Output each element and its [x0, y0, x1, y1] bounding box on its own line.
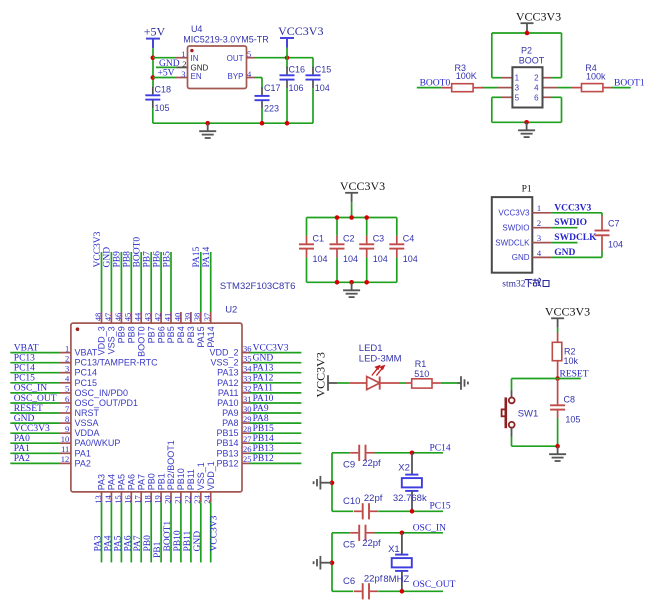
- svg-text:PA12: PA12: [253, 374, 274, 384]
- svg-text:VDD_1: VDD_1: [206, 461, 216, 490]
- svg-text:VSS_2: VSS_2: [210, 358, 238, 368]
- U2 pin35 stub: [242, 362, 250, 364]
- svg-text:5: 5: [65, 384, 69, 394]
- wire U2 pin33 net: [250, 382, 301, 384]
- svg-text:PC15: PC15: [14, 374, 35, 384]
- svg-text:OSC_OUT: OSC_OUT: [14, 394, 57, 404]
- svg-text:OSC_IN: OSC_IN: [14, 384, 47, 394]
- svg-text:C4: C4: [403, 234, 415, 244]
- svg-text:C3: C3: [373, 234, 385, 244]
- wire right rail upper: [561, 33, 563, 78]
- ground led: [458, 376, 468, 390]
- wire C6 left: [332, 590, 353, 592]
- svg-text:104: 104: [315, 83, 330, 93]
- wire caps top: [307, 217, 397, 219]
- svg-text:LED-3MM: LED-3MM: [359, 353, 402, 364]
- wire BOOT0: [417, 87, 442, 89]
- wire ground rail: [153, 122, 313, 124]
- wire U2 pin13 net: [101, 502, 103, 562]
- U2 pin1 stub: [60, 352, 71, 354]
- svg-text:6: 6: [65, 394, 69, 404]
- junction X2 top: [410, 451, 415, 456]
- svg-text:VBAT: VBAT: [75, 348, 98, 358]
- IC U2 STM32F103C8T6 body: [71, 323, 242, 492]
- wire U2 pin22 net: [190, 502, 192, 562]
- wire C16 bottom: [286, 88, 288, 123]
- svg-text:1: 1: [537, 203, 541, 213]
- svg-text:VCC3V3: VCC3V3: [314, 352, 328, 397]
- svg-text:3: 3: [537, 233, 541, 243]
- svg-text:100k: 100k: [586, 72, 606, 82]
- svg-text:16: 16: [123, 495, 133, 504]
- svg-text:PA3: PA3: [97, 474, 107, 490]
- svg-text:MIC5219-3.0YM5-TR: MIC5219-3.0YM5-TR: [183, 34, 269, 44]
- svg-text:PA4: PA4: [107, 474, 117, 490]
- svg-text:17: 17: [133, 495, 143, 504]
- svg-text:PB15: PB15: [216, 428, 238, 438]
- svg-text:1: 1: [181, 49, 185, 59]
- P2 pin5 stub: [501, 96, 512, 98]
- U2 pin40 stub: [180, 312, 182, 323]
- wire U2 pin23 net: [200, 502, 202, 562]
- U2 pin24 stub: [210, 492, 212, 502]
- svg-text:PB7: PB7: [143, 251, 153, 268]
- svg-text:BOOT: BOOT: [519, 55, 545, 65]
- wire C9 left: [332, 452, 350, 454]
- svg-text:104: 104: [373, 254, 388, 264]
- U4 pin2 stub: [177, 66, 188, 68]
- wire U2 pin18 net: [150, 502, 152, 562]
- svg-text:PB10: PB10: [173, 530, 183, 551]
- svg-text:OSC_IN: OSC_IN: [413, 523, 446, 533]
- ground caps: [343, 282, 360, 297]
- svg-text:PC15: PC15: [430, 502, 451, 512]
- junction RESET: [555, 376, 560, 381]
- ground boot: [518, 122, 535, 137]
- svg-text:42: 42: [153, 313, 163, 322]
- power VCC3V3: [278, 24, 323, 48]
- wire U2 pin1 net: [10, 352, 60, 354]
- U2 pin7 stub: [60, 412, 71, 414]
- svg-text:SWDCLK: SWDCLK: [554, 233, 597, 243]
- wire led to R1: [400, 382, 406, 384]
- resistor R2: [552, 333, 562, 379]
- wire stem: [526, 32, 528, 34]
- svg-text:U4: U4: [191, 24, 203, 34]
- crystal X1: [392, 533, 412, 592]
- svg-text:U2: U2: [225, 305, 237, 316]
- wire stem caps: [351, 202, 353, 217]
- wire U2 pin12 net: [10, 462, 60, 464]
- svg-text:PA0: PA0: [14, 434, 30, 444]
- wire U2 pin19 net: [160, 502, 162, 562]
- svg-text:PA9: PA9: [253, 404, 269, 414]
- wire PC14: [375, 452, 444, 454]
- U2 pin12 stub: [60, 462, 71, 464]
- wire to P2 pin5: [492, 96, 501, 98]
- wire U2 pin7 net: [10, 412, 60, 414]
- svg-text:104: 104: [343, 254, 358, 264]
- U2 pin15 stub: [120, 492, 122, 502]
- capacitor C15: [306, 67, 321, 88]
- wire C16 top: [286, 58, 288, 68]
- power VCC3V3 caps: [340, 179, 385, 202]
- svg-text:C16: C16: [289, 64, 306, 74]
- U2 pin17 stub: [140, 492, 142, 502]
- svg-text:8: 8: [65, 414, 69, 424]
- svg-text:PA10: PA10: [253, 394, 274, 404]
- wire to P2 pin6: [552, 96, 562, 98]
- svg-text:44: 44: [133, 312, 143, 321]
- U2 pin3 stub: [60, 372, 71, 374]
- wire U2 pin32 net: [250, 392, 301, 394]
- wire left rail upper: [491, 33, 493, 78]
- U2 pin13 stub: [101, 492, 103, 502]
- svg-text:PA5: PA5: [113, 535, 123, 551]
- svg-text:PC15: PC15: [75, 378, 98, 388]
- junction IN: [151, 55, 156, 60]
- U2 pin6 stub: [60, 402, 71, 404]
- wire U2 pin46 net: [120, 252, 122, 312]
- wire U2 pin8 net: [10, 422, 60, 424]
- svg-text:PA8: PA8: [253, 414, 269, 424]
- svg-text:14: 14: [103, 495, 113, 504]
- svg-text:1: 1: [515, 74, 520, 83]
- U4 pin4 stub: [247, 77, 255, 79]
- U2 pin30 stub: [242, 412, 250, 414]
- svg-text:33: 33: [243, 374, 252, 384]
- svg-text:BOOT1: BOOT1: [163, 521, 173, 552]
- wire U2 pin37 net: [210, 252, 212, 312]
- capacitor C10: [354, 503, 378, 519]
- wire caps bottom: [307, 281, 397, 283]
- U2 pin38 stub: [200, 312, 202, 323]
- wire U2 pin45 net: [130, 252, 132, 312]
- wire C3 bottom: [366, 258, 368, 283]
- svg-text:PA7: PA7: [136, 474, 146, 490]
- svg-text:PC14: PC14: [430, 443, 451, 453]
- capacitor C4: [389, 236, 404, 258]
- wire U2 pin6 net: [10, 402, 60, 404]
- U2 pin27 stub: [242, 442, 250, 444]
- junction reset gnd: [555, 444, 560, 449]
- P1 pin4 stub: [532, 256, 551, 258]
- U2 pin21 stub: [180, 492, 182, 502]
- capacitor C17: [255, 87, 270, 108]
- svg-text:PC13/TAMPER-RTC: PC13/TAMPER-RTC: [75, 358, 159, 368]
- P1 pin2 stub: [532, 227, 551, 229]
- svg-text:26: 26: [243, 444, 252, 454]
- svg-text:PA10: PA10: [217, 398, 238, 408]
- svg-text:PB15: PB15: [253, 424, 274, 434]
- svg-text:104: 104: [403, 254, 418, 264]
- svg-text:PB4: PB4: [176, 326, 186, 343]
- power VCC3V3 reset: [545, 305, 590, 328]
- U2 pin46 stub: [120, 312, 122, 323]
- svg-text:C1: C1: [313, 234, 325, 244]
- wire boot top: [492, 32, 562, 34]
- wire C7 top: [601, 213, 603, 216]
- junction X2 gnd: [330, 480, 335, 485]
- U2 pin45 stub: [130, 312, 132, 323]
- svg-text:C10: C10: [343, 496, 360, 507]
- svg-text:PA2: PA2: [75, 458, 91, 468]
- wire boot bottom: [492, 121, 562, 123]
- U2 pin29 stub: [242, 422, 250, 424]
- svg-text:22: 22: [182, 495, 192, 504]
- svg-text:NRST: NRST: [75, 408, 100, 418]
- svg-text:C2: C2: [343, 234, 355, 244]
- U2 pin20 stub: [170, 492, 172, 502]
- svg-text:PA1: PA1: [14, 444, 30, 454]
- svg-text:30: 30: [243, 404, 252, 414]
- junction C17 gnd: [260, 121, 265, 126]
- U2 pin8 stub: [60, 422, 71, 424]
- junction caps bottom: [335, 280, 340, 285]
- P1 pin1 stub: [532, 212, 551, 214]
- wire U2 pin27 net: [250, 442, 301, 444]
- U2 pin11 stub: [60, 452, 71, 454]
- svg-text:PB12: PB12: [253, 454, 274, 464]
- svg-text:+5V: +5V: [144, 24, 166, 38]
- svg-text:C18: C18: [155, 84, 172, 94]
- wire BYP down: [261, 78, 263, 89]
- svg-text:22pf: 22pf: [362, 458, 381, 469]
- wire C1 top: [306, 218, 308, 236]
- svg-text:13: 13: [93, 495, 103, 504]
- wire: [351, 281, 353, 283]
- junction C16 gnd: [285, 121, 290, 126]
- svg-text:RESET: RESET: [14, 404, 43, 414]
- svg-text:VCC3V3: VCC3V3: [545, 305, 590, 319]
- svg-text:PB8: PB8: [123, 251, 133, 268]
- svg-text:12: 12: [61, 454, 70, 464]
- svg-text:2: 2: [182, 59, 186, 69]
- wire to SW1: [511, 379, 513, 391]
- wire OUT: [255, 57, 314, 59]
- svg-text:100K: 100K: [456, 71, 477, 81]
- U2 pin39 stub: [190, 312, 192, 323]
- svg-text:GND: GND: [103, 247, 113, 268]
- svg-text:2: 2: [537, 218, 541, 228]
- wire U2 pin17 net: [140, 502, 142, 562]
- svg-text:SWDIO: SWDIO: [502, 223, 529, 232]
- U2 pin10 stub: [60, 442, 71, 444]
- svg-text:31: 31: [243, 394, 252, 404]
- capacitor C3: [359, 236, 374, 258]
- svg-text:OSC_OUT: OSC_OUT: [413, 580, 456, 590]
- crystal X2: [402, 453, 422, 512]
- U4 pin3 stub: [176, 77, 188, 79]
- U2 pin36 stub: [242, 352, 250, 354]
- wire R1 to gnd: [441, 382, 458, 384]
- svg-text:PA11: PA11: [218, 388, 239, 398]
- wire to P2 pin1: [492, 77, 501, 79]
- svg-text:VSS_3: VSS_3: [107, 326, 117, 354]
- svg-text:BOOT1: BOOT1: [614, 78, 645, 88]
- wire SW1 down: [511, 437, 513, 447]
- svg-text:PB1: PB1: [153, 541, 163, 558]
- svg-text:PA15: PA15: [192, 246, 202, 267]
- svg-text:SWDCLK: SWDCLK: [495, 238, 530, 247]
- svg-text:4: 4: [537, 248, 542, 258]
- capacitor C18: [145, 87, 160, 108]
- svg-text:45: 45: [123, 313, 133, 322]
- wire GND net: [552, 256, 602, 258]
- capacitor C9: [350, 445, 374, 461]
- svg-text:PB7: PB7: [146, 326, 156, 343]
- svg-text:19: 19: [153, 495, 163, 504]
- ground: [199, 123, 216, 138]
- svg-text:20: 20: [162, 495, 172, 504]
- svg-text:6: 6: [534, 93, 539, 102]
- wire OSC_IN: [375, 532, 444, 534]
- wire U2 pin31 net: [250, 402, 301, 404]
- svg-text:8MHZ: 8MHZ: [383, 574, 409, 585]
- capacitor C7: [595, 216, 610, 252]
- svg-text:C7: C7: [608, 218, 620, 228]
- svg-text:PB14: PB14: [253, 434, 274, 444]
- wire U2 pin43 net: [150, 252, 152, 312]
- wire VCC3V3 stem: [286, 48, 288, 58]
- svg-text:39: 39: [182, 313, 192, 322]
- svg-text:PB6: PB6: [152, 251, 162, 268]
- svg-text:PA15: PA15: [196, 326, 206, 347]
- svg-text:PB14: PB14: [216, 438, 238, 448]
- capacitor C8: [550, 379, 565, 419]
- svg-text:GND: GND: [14, 414, 35, 424]
- svg-text:24: 24: [202, 495, 212, 504]
- svg-text:C15: C15: [315, 64, 332, 74]
- svg-text:38: 38: [192, 313, 202, 322]
- svg-text:PB11: PB11: [183, 530, 193, 551]
- svg-text:C6: C6: [343, 576, 355, 587]
- svg-text:PA2: PA2: [14, 454, 30, 464]
- svg-text:PA14: PA14: [206, 326, 216, 347]
- svg-text:32: 32: [243, 384, 252, 394]
- svg-text:PB13: PB13: [253, 444, 274, 454]
- svg-text:22pf: 22pf: [364, 573, 383, 584]
- svg-text:EN: EN: [191, 72, 202, 81]
- wire reset right: [558, 378, 581, 380]
- svg-text:10: 10: [61, 434, 70, 444]
- wire U2 pin16 net: [130, 502, 132, 562]
- P2 pin4 stub: [543, 87, 558, 89]
- wire U2 pin26 net: [250, 452, 301, 454]
- resistor R1: [406, 379, 441, 388]
- svg-text:PB5: PB5: [166, 326, 176, 343]
- svg-text:BOOT0: BOOT0: [420, 79, 451, 89]
- wire C5 left: [332, 532, 350, 534]
- svg-text:18: 18: [143, 495, 153, 504]
- svg-text:41: 41: [162, 313, 172, 322]
- svg-text:VCC3V3: VCC3V3: [516, 9, 561, 23]
- LED LED1: [349, 366, 400, 390]
- wire U2 pin47 net: [110, 252, 112, 312]
- U2 pin32 stub: [242, 392, 250, 394]
- capacitor C6: [354, 583, 378, 599]
- wire reset bottom: [512, 445, 558, 447]
- svg-text:VCC3V3: VCC3V3: [93, 231, 103, 267]
- wire C2 bottom: [336, 258, 338, 283]
- U2 pin25 stub: [242, 462, 250, 464]
- svg-text:25: 25: [243, 454, 252, 464]
- wire U2 pin29 net: [250, 422, 301, 424]
- svg-text:PA9: PA9: [222, 408, 238, 418]
- wire to U4 pin1: [153, 57, 176, 59]
- svg-text:VSS_1: VSS_1: [196, 462, 206, 490]
- svg-text:R1: R1: [415, 359, 427, 369]
- wire U2 pin2 net: [10, 362, 60, 364]
- U2 pin16 stub: [130, 492, 132, 502]
- wire U2 pin3 net: [10, 372, 60, 374]
- wire U2 pin15 net: [120, 502, 122, 562]
- header P1 body: [492, 197, 533, 273]
- U2 pin4 stub: [60, 382, 71, 384]
- svg-text:PB11: PB11: [186, 469, 196, 490]
- svg-text:10k: 10k: [564, 356, 579, 366]
- svg-text:510: 510: [414, 369, 429, 379]
- wire reset left: [512, 378, 558, 380]
- svg-text:PA6: PA6: [127, 474, 137, 490]
- wire U2 pin36 net: [250, 352, 301, 354]
- power +5V: [144, 24, 166, 48]
- U2 pin22 stub: [190, 492, 192, 502]
- svg-text:GND: GND: [512, 253, 530, 262]
- svg-text:VCC3V3: VCC3V3: [14, 424, 50, 434]
- wire U2 pin14 net: [110, 502, 112, 562]
- svg-text:46: 46: [113, 313, 123, 322]
- svg-text:PB3: PB3: [186, 326, 196, 343]
- svg-text:28: 28: [243, 424, 252, 434]
- svg-text:11: 11: [61, 444, 69, 454]
- U2 pin33 stub: [242, 382, 250, 384]
- switch SW1: [502, 391, 515, 437]
- wire U2 pin25 net: [250, 462, 301, 464]
- junction caps top: [364, 215, 369, 220]
- svg-text:P2: P2: [521, 46, 532, 56]
- svg-text:36: 36: [243, 343, 252, 353]
- U2 pin9 stub: [60, 432, 71, 434]
- wire SWDCLK net: [552, 242, 578, 244]
- op-amp U4 body: [188, 46, 247, 89]
- svg-text:X1: X1: [388, 544, 400, 555]
- wire PC15: [378, 510, 443, 512]
- svg-text:PB10: PB10: [176, 468, 186, 490]
- capacitor C5: [350, 525, 374, 541]
- svg-text:106: 106: [289, 83, 304, 93]
- capacitor C1: [299, 236, 314, 258]
- svg-text:P1: P1: [522, 185, 532, 195]
- svg-text:PB6: PB6: [156, 326, 166, 343]
- junction gnd tap: [205, 121, 210, 126]
- capacitor C16: [280, 67, 295, 88]
- P2 pin2 stub: [543, 77, 553, 79]
- svg-text:GND: GND: [554, 248, 575, 258]
- P2 pin1 stub: [501, 77, 512, 79]
- svg-text:37: 37: [202, 313, 212, 322]
- U2 pin1 dot: [76, 327, 80, 331]
- wire U2 pin30 net: [250, 412, 301, 414]
- svg-text:3: 3: [181, 69, 185, 79]
- svg-text:PA4: PA4: [103, 535, 113, 551]
- wire C15 bottom: [312, 88, 314, 123]
- svg-text:40: 40: [172, 313, 182, 322]
- svg-text:VCC3V3: VCC3V3: [340, 179, 385, 193]
- svg-text:2: 2: [534, 74, 539, 83]
- U2 pin34 stub: [242, 372, 250, 374]
- svg-text:1: 1: [65, 343, 69, 353]
